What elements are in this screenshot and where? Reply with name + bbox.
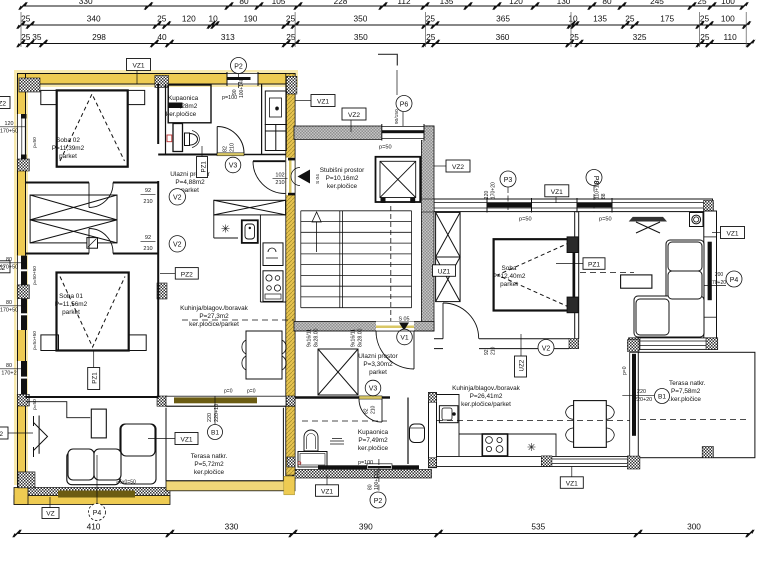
text 200/70+20 P4 bbox=[703, 272, 726, 286]
room label Kupaonica right bbox=[358, 429, 389, 452]
svg-text:298: 298 bbox=[92, 32, 106, 42]
svg-text:p=0: p=0 bbox=[622, 366, 628, 375]
svg-text:.ker.pločice: .ker.pločice bbox=[669, 396, 701, 403]
svg-text:80: 80 bbox=[239, 0, 249, 6]
svg-text:V2: V2 bbox=[542, 345, 551, 352]
svg-text:105: 105 bbox=[272, 0, 286, 6]
coffee table right apartment bbox=[621, 275, 652, 288]
svg-text:120: 120 bbox=[5, 121, 14, 127]
wall bathroom south + threshold bbox=[158, 153, 286, 156]
svg-text:170+50: 170+50 bbox=[0, 129, 18, 135]
svg-text:p=100: p=100 bbox=[222, 95, 237, 101]
washbasin right-bath bbox=[304, 430, 318, 451]
svg-text:82: 82 bbox=[223, 146, 229, 152]
sofa right apartment bbox=[634, 240, 704, 337]
wall bathroom east bbox=[261, 84, 263, 155]
wall soba01 north (corridor south) bbox=[26, 253, 159, 255]
svg-text:313: 313 bbox=[221, 32, 235, 42]
dining table right bbox=[566, 401, 615, 448]
svg-text:210: 210 bbox=[143, 199, 152, 205]
wall bath west below terrace (yellow continues) bbox=[286, 406, 295, 475]
svg-text:220+20: 220+20 bbox=[634, 397, 652, 403]
svg-text:S 05: S 05 bbox=[398, 317, 409, 323]
svg-text:V3: V3 bbox=[369, 386, 378, 393]
room label Kupaonica left bbox=[166, 95, 199, 118]
svg-text:80: 80 bbox=[602, 0, 612, 6]
label VZ1 terrace-left bbox=[148, 433, 198, 445]
wall bathroom west (interior) bbox=[158, 84, 165, 155]
svg-text:parket: parket bbox=[59, 153, 77, 160]
label PZ1 bathroom (vertical box) bbox=[197, 146, 208, 178]
svg-text:120: 120 bbox=[509, 0, 523, 6]
door V3 right swing bbox=[359, 399, 382, 422]
circle V1 bottom bbox=[397, 329, 413, 345]
svg-text:PZ2: PZ2 bbox=[181, 271, 193, 278]
svg-text:220: 220 bbox=[207, 413, 213, 422]
room label Terasa right bbox=[669, 380, 706, 403]
svg-text:92: 92 bbox=[145, 188, 151, 194]
svg-text:80: 80 bbox=[6, 363, 12, 369]
tv right apartment bbox=[629, 217, 667, 233]
kitchen stove left bbox=[263, 271, 283, 302]
svg-text:Soba 01: Soba 01 bbox=[59, 293, 83, 300]
svg-text:Kuhinja/blagov./boravak: Kuhinja/blagov./boravak bbox=[180, 305, 249, 312]
svg-text:✳: ✳ bbox=[527, 442, 536, 454]
svg-text:p=50: p=50 bbox=[32, 399, 38, 410]
svg-text:VZ1: VZ1 bbox=[551, 189, 563, 196]
text dims rotated P2 top bbox=[232, 78, 245, 98]
label UZ1 box bbox=[433, 265, 456, 277]
svg-text:350: 350 bbox=[354, 32, 368, 42]
wall kitchen-bath divider bbox=[429, 393, 437, 468]
wall pier hatched #2 bbox=[155, 76, 169, 88]
svg-text:p=50: p=50 bbox=[519, 217, 532, 223]
svg-text:10: 10 bbox=[568, 14, 578, 24]
wall entry-bath block north (stair south wall continues) bbox=[294, 330, 434, 332]
svg-text:parket: parket bbox=[500, 281, 518, 288]
svg-text:25: 25 bbox=[157, 14, 167, 24]
text 82/210 rotated right bbox=[364, 405, 377, 414]
neighbour outline bracket above P6 bbox=[378, 54, 397, 65]
svg-text:P=4,88m2: P=4,88m2 bbox=[175, 179, 205, 186]
wall toilet nook divider bbox=[407, 398, 409, 465]
window P2 bathroom top bbox=[227, 72, 258, 86]
wardrobe entry right apt bbox=[318, 349, 358, 395]
text 120/170+20 rotated P3 bbox=[484, 182, 497, 199]
svg-text:p=50: p=50 bbox=[32, 137, 38, 148]
stairs walking dashed line bbox=[390, 206, 392, 330]
svg-text:P=5,72m2: P=5,72m2 bbox=[194, 461, 224, 468]
toilet right bathroom bbox=[410, 424, 425, 443]
axis line P6 bbox=[397, 70, 403, 126]
svg-text:P4: P4 bbox=[730, 277, 739, 284]
svg-text:VZ1: VZ1 bbox=[726, 231, 738, 238]
svg-text:P3: P3 bbox=[504, 177, 513, 184]
svg-text:P=12,40m2: P=12,40m2 bbox=[493, 273, 526, 280]
dashed line dining right bbox=[437, 420, 630, 422]
circle P6 bbox=[396, 96, 412, 112]
wall bath south (black bars + P2 window) bbox=[318, 464, 419, 470]
svg-text:325: 325 bbox=[633, 32, 647, 42]
svg-text:210: 210 bbox=[275, 180, 284, 186]
kitchen sink right bbox=[439, 406, 458, 423]
svg-text:88: 88 bbox=[601, 193, 607, 199]
window P3 band bbox=[487, 203, 532, 208]
wall right-apartment north (window band) bbox=[434, 199, 713, 212]
svg-text:35: 35 bbox=[32, 32, 42, 42]
wall pier hatched #6 bbox=[18, 394, 30, 406]
svg-text:100+110: 100+110 bbox=[374, 471, 380, 490]
radiator block over bathroom text bbox=[169, 103, 183, 109]
svg-text:P4: P4 bbox=[93, 510, 102, 517]
svg-text:P=7,58m2: P=7,58m2 bbox=[671, 388, 701, 395]
svg-text:p=0: p=0 bbox=[247, 389, 256, 395]
nightstand right-bed top bbox=[567, 237, 578, 253]
svg-text:P2: P2 bbox=[374, 498, 383, 505]
label VZ1 east edge bbox=[712, 227, 745, 239]
wall pier hatched #9 bbox=[157, 396, 167, 406]
dimension row top3 bbox=[16, 32, 755, 48]
svg-text:350: 350 bbox=[353, 14, 367, 24]
svg-text:25: 25 bbox=[21, 14, 31, 24]
wall bath bottom hatch (right apt) bbox=[293, 470, 432, 479]
door S05 swing arc bbox=[376, 331, 414, 369]
svg-text:S 04: S 04 bbox=[315, 174, 321, 184]
wall corner block bottom-left bbox=[14, 488, 28, 505]
svg-text:Kupaonica: Kupaonica bbox=[358, 429, 389, 436]
wall pier hatched #5 bbox=[18, 285, 30, 299]
dim text west window4 bbox=[0, 363, 26, 377]
kitchen wardrobe X left-apartment bbox=[214, 200, 286, 215]
yellow corner below bath bbox=[284, 476, 295, 495]
label PZ1 right box bbox=[556, 258, 605, 270]
svg-text:P=26,41m2: P=26,41m2 bbox=[470, 393, 503, 400]
label VZ half-cut west lower bbox=[0, 427, 33, 439]
svg-text:25: 25 bbox=[697, 0, 707, 6]
stairs text 9x16 right bbox=[351, 328, 364, 347]
kitchen stove right bbox=[482, 434, 507, 456]
circle V2 upper bbox=[169, 189, 185, 205]
left apartment outer pale-yellow edging bbox=[14, 70, 298, 485]
svg-text:220: 220 bbox=[637, 389, 646, 395]
room label Soba01 bbox=[55, 293, 88, 316]
svg-text:VZ2: VZ2 bbox=[452, 164, 464, 171]
svg-text:ker.pločice: ker.pločice bbox=[194, 469, 225, 476]
text dims rotated P2 bottom bbox=[368, 471, 381, 490]
svg-text:e: e bbox=[275, 106, 278, 112]
svg-text:390: 390 bbox=[359, 522, 373, 532]
svg-text:P2: P2 bbox=[234, 63, 243, 70]
svg-text:210: 210 bbox=[491, 346, 497, 355]
svg-text:80: 80 bbox=[6, 257, 12, 263]
label VZ1 stair west bbox=[296, 95, 336, 107]
svg-text:ker.pločice: ker.pločice bbox=[166, 111, 197, 118]
svg-text:PZ1: PZ1 bbox=[588, 262, 600, 269]
circle P2 bottom bbox=[370, 459, 386, 508]
svg-text:100: 100 bbox=[721, 14, 735, 24]
svg-text:p=50: p=50 bbox=[379, 144, 392, 150]
svg-text:VZ2: VZ2 bbox=[0, 431, 3, 438]
pier right-apartment NE corner bbox=[704, 201, 714, 212]
text p=0 labels left terrace bbox=[224, 389, 256, 395]
svg-text:✳: ✳ bbox=[221, 224, 230, 236]
circle V2 right bbox=[538, 340, 554, 356]
svg-text:VZ: VZ bbox=[46, 511, 54, 518]
text 82/210 rotated bbox=[223, 143, 236, 152]
wall left-apartment east party wall (yellow hatched) bbox=[286, 74, 295, 481]
pier terrace right top-left bbox=[627, 340, 639, 352]
nightstand Soba01 left bbox=[41, 335, 59, 351]
svg-text:p=100: p=100 bbox=[358, 460, 373, 466]
svg-text:25: 25 bbox=[426, 14, 436, 24]
label PZ1 soba01 (vertical box) bbox=[88, 351, 100, 390]
room label Soba right bbox=[493, 265, 526, 288]
svg-text:175: 175 bbox=[660, 14, 674, 24]
svg-text:B1: B1 bbox=[211, 430, 219, 437]
svg-text:UZ1: UZ1 bbox=[438, 269, 451, 276]
svg-text:V3: V3 bbox=[229, 163, 238, 170]
door S04 swing arc bbox=[253, 161, 285, 193]
svg-text:535: 535 bbox=[531, 522, 545, 532]
pier terrace right bottom bbox=[702, 447, 713, 458]
svg-text:p=0: p=0 bbox=[224, 389, 233, 395]
svg-text:VZ1: VZ1 bbox=[317, 99, 329, 106]
window west lower-2 bbox=[17, 299, 28, 330]
svg-text:110: 110 bbox=[723, 32, 737, 42]
dimension row top2 bbox=[16, 14, 751, 30]
svg-text:120: 120 bbox=[484, 190, 490, 199]
svg-text:190: 190 bbox=[243, 14, 257, 24]
wall pier hatched #7 bbox=[18, 472, 35, 488]
svg-text:B1: B1 bbox=[658, 394, 666, 401]
circle P2 top bbox=[231, 58, 247, 89]
room label Ulazni left bbox=[170, 171, 210, 194]
wall pier hatched #3 bbox=[287, 76, 297, 94]
circle V2 lower bbox=[169, 236, 185, 252]
wall pier hatched #8 bbox=[157, 283, 167, 299]
dimension row top1 (half cut) bbox=[18, 0, 749, 10]
circle P4 right bbox=[726, 271, 742, 287]
washing machine right-bath bbox=[298, 452, 327, 468]
wall living south (right apt, window band) bbox=[629, 338, 718, 350]
dashed line bedroom-living right bbox=[580, 272, 634, 274]
svg-text:210: 210 bbox=[143, 246, 152, 252]
svg-text:210: 210 bbox=[230, 143, 236, 152]
dimension row bottom bbox=[12, 522, 755, 538]
wall pier hatched #4 bbox=[18, 159, 30, 171]
svg-text:110+1/0: 110+1/0 bbox=[595, 181, 601, 199]
wall living south (window band) bbox=[166, 396, 286, 406]
circle B1 right bbox=[655, 389, 670, 404]
wall pier hatched #10 bbox=[286, 396, 295, 406]
wardrobe right bedroom bbox=[436, 212, 461, 301]
svg-text:210: 210 bbox=[371, 405, 377, 414]
kitchen dishwasher left bbox=[263, 243, 283, 266]
label UZ2 vertical box bbox=[515, 334, 527, 377]
svg-text:9x16/11: 9x16/11 bbox=[307, 329, 313, 347]
pier bath west checker bbox=[287, 457, 295, 467]
pier right-apartment NW corner bbox=[421, 199, 434, 212]
text 92/210 rotated right bbox=[484, 346, 497, 355]
wall bedroom south (right apt) bbox=[434, 339, 569, 349]
svg-text:365: 365 bbox=[496, 14, 510, 24]
svg-text:25: 25 bbox=[700, 32, 710, 42]
svg-text:p=50+50: p=50+50 bbox=[32, 266, 38, 285]
window P8 band bbox=[577, 203, 612, 208]
label VZ1 below kitchen right bbox=[560, 467, 583, 489]
room label Terasa left bbox=[191, 453, 228, 476]
door S05 marker wedge bbox=[399, 323, 409, 331]
svg-text:100+140: 100+140 bbox=[239, 78, 245, 98]
room label Ulazni right bbox=[358, 353, 398, 376]
dimension extension lines bbox=[21, 12, 746, 47]
washing machine livingroom corner bbox=[690, 213, 704, 227]
coffee table left-apartment bbox=[91, 409, 106, 438]
label VZ1 top-left bbox=[127, 59, 151, 85]
svg-text:parket: parket bbox=[369, 369, 387, 376]
stairs text 9x16 left bbox=[307, 328, 320, 347]
washbasin counter left bathroom bbox=[173, 124, 183, 152]
wall stairwell east (gray hatched) bbox=[421, 126, 434, 331]
room label Stubisni prostor bbox=[320, 167, 365, 190]
svg-text:25: 25 bbox=[21, 32, 31, 42]
nightstand Soba02 right bbox=[128, 90, 145, 104]
pier terrace right bottom-left bbox=[627, 456, 640, 469]
door S04 opening bbox=[286, 158, 294, 196]
svg-text:VZ1: VZ1 bbox=[180, 437, 192, 444]
pier dining south W bbox=[541, 456, 552, 467]
door bathroom V3 bbox=[217, 127, 244, 154]
svg-text:40: 40 bbox=[157, 32, 167, 42]
svg-text:330: 330 bbox=[225, 522, 239, 532]
svg-text:VZ2: VZ2 bbox=[348, 112, 360, 119]
svg-text:90/150: 90/150 bbox=[394, 109, 400, 124]
svg-text:P=7,49m2: P=7,49m2 bbox=[358, 437, 388, 444]
svg-text:⌀5x0=50: ⌀5x0=50 bbox=[116, 480, 136, 486]
svg-text:p=5o+50: p=5o+50 bbox=[32, 331, 38, 350]
nightstand right-bed bottom bbox=[567, 297, 578, 313]
window Soba02 west bbox=[17, 114, 27, 159]
dashed line bathroom right bbox=[302, 420, 387, 422]
svg-text:10: 10 bbox=[208, 14, 218, 24]
text 220/220+20 right bbox=[622, 389, 654, 403]
svg-text:80: 80 bbox=[368, 484, 374, 490]
tv sliding-door symbol west wall bbox=[34, 416, 48, 458]
svg-text:Terasa natkr.: Terasa natkr. bbox=[191, 453, 228, 460]
nightstand Soba02 left bbox=[41, 90, 57, 104]
dim text west window1 bbox=[0, 121, 26, 135]
wall dining south (right apt) bbox=[437, 457, 640, 467]
pier living south W bbox=[629, 338, 640, 350]
door corridor upper V2 bbox=[89, 183, 113, 208]
dim text west window2 bbox=[0, 257, 26, 271]
living step line bbox=[26, 402, 90, 418]
circle V3 right bbox=[365, 380, 381, 396]
svg-text:Soba 02: Soba 02 bbox=[56, 137, 80, 144]
svg-text:135: 135 bbox=[440, 0, 454, 6]
pier living south E bbox=[706, 338, 718, 350]
threshold V3 right bbox=[359, 396, 382, 399]
wardrobe Soba02 bbox=[30, 195, 117, 243]
wall soba02 south (corridor north) bbox=[26, 182, 159, 184]
radiator small left-bath bbox=[167, 135, 172, 142]
svg-text:ker.pločice: ker.pločice bbox=[327, 183, 358, 190]
svg-text:245: 245 bbox=[650, 0, 664, 6]
svg-text:300: 300 bbox=[687, 522, 701, 532]
label VZ2 right of stair bbox=[434, 160, 470, 172]
svg-text:P=27,3m2: P=27,3m2 bbox=[199, 313, 229, 320]
wall stairwell north (gray hatched) bbox=[294, 126, 434, 139]
svg-text:Kuhinja/blagov./boravak: Kuhinja/blagov./boravak bbox=[452, 385, 521, 392]
dashed line terrace right bbox=[640, 418, 750, 420]
svg-text:p=50: p=50 bbox=[599, 217, 612, 223]
wall left-apartment west (yellow) bbox=[18, 74, 26, 505]
door S05 opening bbox=[376, 322, 414, 332]
door S04 marker wedge bbox=[291, 168, 310, 186]
pier bedroom SE corner bbox=[569, 339, 579, 349]
svg-text:ker.pločice/parket: ker.pločice/parket bbox=[461, 401, 511, 408]
svg-text:PZ1: PZ1 bbox=[92, 372, 99, 384]
svg-text:80: 80 bbox=[6, 300, 12, 306]
svg-text:VZ1: VZ1 bbox=[321, 489, 333, 496]
svg-text:228: 228 bbox=[334, 0, 348, 6]
rotated p=50 labels west wall bbox=[32, 137, 38, 410]
svg-text:VZ1: VZ1 bbox=[132, 63, 144, 70]
dashed line kitchen left bbox=[182, 319, 294, 321]
svg-text:25: 25 bbox=[286, 14, 296, 24]
svg-text:Terasa natkr.: Terasa natkr. bbox=[669, 380, 706, 387]
svg-text:100: 100 bbox=[721, 0, 735, 6]
wall pier hatched #1 bbox=[19, 78, 40, 92]
svg-text:92: 92 bbox=[145, 235, 151, 241]
label VZ2 stair bbox=[342, 108, 366, 132]
wall terrace south parapet (yellow) bbox=[166, 481, 295, 491]
svg-text:VZ1: VZ1 bbox=[566, 481, 578, 488]
room label Soba02 bbox=[52, 137, 85, 160]
svg-text:170+20: 170+20 bbox=[491, 182, 497, 199]
text 102/210 left entry bbox=[273, 173, 288, 187]
svg-text:P=3,30m2: P=3,30m2 bbox=[363, 361, 393, 368]
kitchen counter right bbox=[437, 395, 557, 457]
label PZ2 box bbox=[160, 268, 198, 280]
svg-text:Ulazni prostor: Ulazni prostor bbox=[358, 353, 398, 360]
wall soba01 south bbox=[26, 396, 159, 398]
svg-text:Soba: Soba bbox=[502, 265, 517, 272]
svg-text:P6: P6 bbox=[400, 101, 409, 108]
shower left bathroom bbox=[168, 85, 211, 123]
text 92/210 lower bbox=[141, 235, 156, 252]
wall bath top (right apt) bbox=[295, 396, 390, 398]
cabinet entry lower bbox=[265, 125, 286, 151]
svg-text:P=10,16m2: P=10,16m2 bbox=[326, 175, 359, 182]
nightstand Soba01 right bbox=[129, 335, 147, 351]
label VZ1 below bath bbox=[316, 475, 339, 497]
bed Soba right bbox=[494, 239, 574, 310]
door bedroom right V2 bbox=[443, 303, 479, 339]
circle P4 bottom bbox=[89, 455, 106, 521]
terrace left outline bbox=[166, 408, 283, 481]
text dims rotated P8 bbox=[595, 181, 608, 199]
bed Soba01 bbox=[57, 273, 129, 351]
wardrobe entry tall cabinet bbox=[265, 91, 286, 125]
circle P3 bbox=[500, 171, 516, 212]
svg-text:170+50: 170+50 bbox=[0, 308, 18, 314]
dining table left-apartment bbox=[242, 331, 286, 379]
svg-text:V2: V2 bbox=[173, 242, 182, 249]
wall left-apartment top (yellow) bbox=[18, 74, 296, 85]
svg-text:170+50: 170+50 bbox=[0, 265, 18, 271]
circle B1 left bbox=[208, 425, 223, 440]
